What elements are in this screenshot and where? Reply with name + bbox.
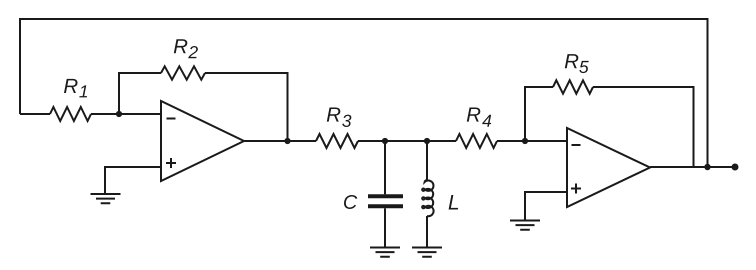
capacitor C (368, 196, 403, 206)
resistor R5 (553, 80, 593, 93)
wire R1 to inverting input of U1 (91, 113, 161, 115)
U1 minus sign (167, 118, 176, 120)
wire input segment left of R1 (20, 113, 50, 115)
U1 plus sign (166, 158, 176, 168)
label R3 (327, 107, 352, 127)
ground (C) (370, 248, 400, 257)
wire inductor L bottom lead (426, 216, 428, 247)
resistor R4 (456, 134, 497, 148)
U2 plus sign (571, 184, 581, 194)
resistor R1 (50, 107, 91, 121)
wire capacitor C top lead (384, 141, 386, 194)
wire U2 output to terminal (650, 166, 735, 168)
ground (U2) (510, 221, 540, 230)
node A junction dot (R1/R2/U1-) (116, 111, 122, 117)
wire U1 output to R3 (244, 140, 316, 142)
resistor R3 (316, 134, 358, 148)
op-amp U1 (161, 101, 244, 181)
wire outer feedback loop: output node up, across top, down to R1 input (20, 19, 708, 167)
wire U1 non-inverting input to ground (105, 167, 161, 194)
node B junction dot (R4/R5/U2-) (522, 138, 528, 144)
ground (L) (412, 248, 442, 257)
resistor R2 (161, 66, 205, 79)
label R4 (467, 107, 491, 126)
output terminal dot (732, 164, 739, 171)
label L (449, 195, 459, 209)
wire R3 to R4 through tank nodes (358, 140, 456, 142)
wire U2 non-inverting input to ground (525, 192, 567, 220)
ground (U1) (91, 194, 121, 203)
wire R2 right leg down to U1 output (205, 73, 288, 141)
wire inductor L top lead (426, 141, 428, 180)
op-amp U2 (567, 128, 650, 207)
wire R5 right leg down to U2 output (593, 87, 694, 167)
junction dot C branch (382, 138, 388, 144)
wire R4 to inverting input of U2 (497, 140, 567, 142)
junction dot U2 output / feedback (704, 164, 710, 170)
wire R2 left leg from node A up (119, 73, 161, 114)
U2 minus sign (572, 144, 581, 146)
junction dot U1 output / R2 (284, 138, 290, 144)
label R1 (64, 79, 87, 98)
inductor L (422, 180, 433, 216)
junction dot L branch (424, 138, 430, 144)
label R5 (565, 54, 589, 73)
wire R5 left leg from node B up (525, 87, 553, 141)
label C (344, 195, 357, 209)
wire capacitor C bottom lead (384, 208, 386, 247)
label R2 (174, 39, 198, 58)
